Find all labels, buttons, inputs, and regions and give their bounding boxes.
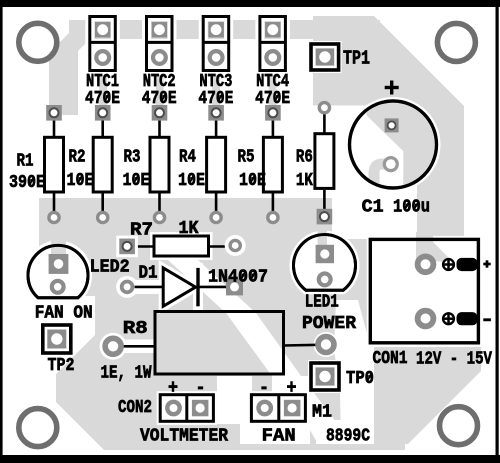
- trace to FAN pad: [252, 376, 272, 398]
- test point TP2: [43, 325, 71, 353]
- svg-text:VOLTMETER: VOLTMETER: [140, 427, 228, 447]
- svg-text:12V - 15V: 12V - 15V: [416, 350, 492, 370]
- svg-text:+: +: [168, 377, 178, 399]
- resistor R3: [150, 105, 169, 223]
- resistor R7: [116, 235, 245, 257]
- C1 plus mark: [385, 81, 399, 95]
- thermistor NTC2: [147, 17, 173, 71]
- clearance band A (white diagonal): [168, 260, 350, 444]
- clearance left of C1: [313, 106, 352, 151]
- svg-text:-: -: [196, 377, 206, 399]
- svg-text:1K: 1K: [179, 219, 199, 239]
- clearance around LED2: [24, 241, 92, 309]
- svg-text:R4: R4: [179, 148, 196, 168]
- resistor R5: [263, 105, 282, 223]
- svg-text:R3: R3: [124, 148, 141, 168]
- svg-text:R8: R8: [123, 319, 148, 339]
- svg-text:1N4007: 1N4007: [208, 268, 268, 288]
- svg-text:390E: 390E: [9, 173, 45, 193]
- clearance around TP2 area: [0, 296, 95, 335]
- mounting hole bottom-right: [440, 407, 478, 445]
- clearance around C1 minus pad: [378, 152, 403, 177]
- trace NTC2 to R3: [156, 69, 164, 109]
- test point TP0: [311, 363, 339, 390]
- svg-text:100u: 100u: [393, 198, 430, 218]
- clearance bottom middle: [217, 376, 310, 444]
- resistor R2: [93, 105, 112, 223]
- svg-text:TP0: TP0: [346, 369, 374, 389]
- svg-text:CON1: CON1: [373, 349, 408, 369]
- thermistor NTC4: [260, 17, 286, 71]
- thermistor NTC1: [90, 17, 116, 71]
- clearance around C1 text area: [332, 148, 417, 239]
- svg-text:1K: 1K: [296, 171, 313, 191]
- copper pour inside C1: [367, 98, 440, 192]
- svg-text:R1: R1: [17, 152, 34, 172]
- board frame top: [0, 0, 500, 7]
- svg-text:FAN: FAN: [262, 427, 296, 447]
- LED1: [293, 225, 355, 291]
- trace NTC3 to R4: [212, 69, 220, 109]
- trace NTC1 to R2: [99, 69, 107, 109]
- mounting hole top-left: [19, 23, 57, 61]
- svg-text:R2: R2: [69, 148, 86, 168]
- svg-text:R5: R5: [238, 148, 255, 168]
- connector M1 FAN: [251, 395, 305, 422]
- svg-text:8899C: 8899C: [326, 427, 370, 447]
- clearance around C1: [346, 97, 441, 192]
- resistor R4: [207, 105, 226, 223]
- clearance left of TP1: [290, 39, 313, 115]
- copper pour: below CON1: [374, 347, 481, 444]
- svg-text:TP2: TP2: [48, 356, 75, 376]
- svg-text:D1: D1: [139, 264, 158, 284]
- copper pour: top-right region: [313, 16, 464, 239]
- svg-text:R6: R6: [296, 148, 313, 168]
- copper pour: bottom strip: [367, 444, 405, 450]
- mounting hole top-right: [437, 23, 475, 61]
- svg-text:LED1: LED1: [305, 293, 339, 313]
- svg-text:+: +: [287, 377, 297, 399]
- copper pour: central region: [39, 198, 367, 450]
- svg-text:R7: R7: [130, 221, 153, 241]
- CON1 plus mark: [483, 260, 490, 267]
- svg-text:POWER: POWER: [302, 314, 356, 334]
- svg-text:LED2: LED2: [90, 258, 130, 278]
- copper pour: top band net: [69, 20, 380, 39]
- svg-text:M1: M1: [312, 403, 332, 423]
- trace NTC4 to R5: [269, 69, 277, 109]
- clearance band B (white diagonal): [334, 300, 374, 444]
- svg-text:TP1: TP1: [343, 48, 370, 70]
- capacitor C1: [350, 101, 437, 188]
- test point TP1: [311, 44, 339, 70]
- svg-text:FAN ON: FAN ON: [35, 304, 93, 324]
- diode D1: [116, 263, 243, 311]
- CON1 minus mark: [483, 318, 491, 321]
- connector CON2: [160, 395, 213, 422]
- thermistor NTC3: [203, 17, 229, 71]
- resistor R1: [45, 105, 64, 223]
- trace inside C1 to minus pad: [374, 164, 391, 192]
- resistor R8: [100, 312, 339, 375]
- svg-text:CON2: CON2: [118, 398, 152, 418]
- mounting hole bottom-left: [19, 409, 57, 447]
- connector CON1: [370, 232, 478, 343]
- svg-text:1E, 1W: 1E, 1W: [101, 364, 152, 384]
- svg-text:-: -: [259, 377, 269, 399]
- resistor R6: [315, 103, 334, 225]
- trace R1 top pad to pour: [49, 20, 90, 115]
- svg-text:C1: C1: [362, 198, 384, 218]
- LED2: [28, 238, 88, 298]
